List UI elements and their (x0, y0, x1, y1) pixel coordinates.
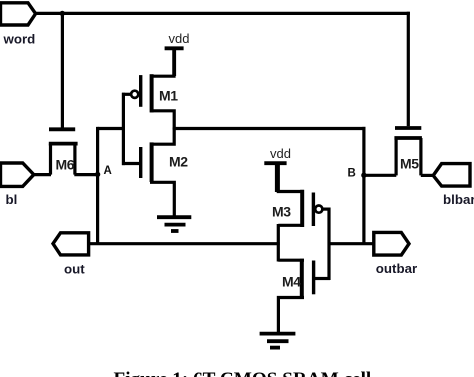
transistor M4 (NMOS) (278, 259, 313, 334)
ground below M4 (260, 334, 296, 348)
wire M3/M4 drain vertical (277, 224, 280, 262)
wire right gate bus (327, 208, 330, 281)
wire word line (top horizontal) (35, 12, 410, 15)
ground below M2 (157, 217, 191, 231)
wire M5 gate stem (top right vertical) (407, 12, 410, 127)
transistor M2 (NMOS) (141, 128, 175, 219)
port blbar (433, 164, 470, 187)
wire M3 gate lead (323, 208, 330, 211)
port outbar (374, 232, 409, 255)
svg-text:M3: M3 (272, 204, 291, 220)
svg-text:M1: M1 (159, 88, 178, 104)
wire left gate bus (122, 93, 125, 165)
svg-text:B: B (348, 168, 356, 180)
wire M6 gate stem (61, 13, 64, 127)
svg-text:Figure 1: 6T CMOS SRAM cell: Figure 1: 6T CMOS SRAM cell (114, 369, 372, 377)
svg-text:vdd: vdd (270, 146, 291, 161)
wire left drain bus (M1/M2 drains to node B) (175, 127, 366, 130)
node B (361, 173, 366, 178)
svg-text:M5: M5 (400, 156, 419, 172)
svg-text:word: word (3, 31, 36, 46)
wire out line (89, 242, 280, 245)
wire node B vertical (362, 127, 365, 244)
wire node A to left gate bus (98, 127, 124, 130)
svg-text:outbar: outbar (376, 261, 417, 276)
wire M6 to node A (74, 173, 97, 176)
port out (53, 233, 89, 255)
node A (95, 172, 100, 177)
power vdd left (165, 48, 184, 76)
svg-text:bl: bl (6, 192, 18, 207)
svg-text:M6: M6 (56, 157, 75, 173)
svg-text:out: out (64, 262, 85, 277)
wire M5 to blbar (421, 174, 434, 177)
wire bl to M6 (34, 173, 52, 176)
wire outbar line (329, 242, 375, 245)
svg-text:vdd: vdd (169, 31, 190, 46)
junction word/M6 stem (60, 11, 65, 16)
transistor M5 (394, 128, 422, 175)
wire node B to M5 (364, 174, 396, 177)
transistor M3 (PMOS) (278, 163, 322, 228)
svg-text:A: A (104, 165, 112, 177)
svg-text:M2: M2 (169, 154, 188, 170)
transistor M1 (PMOS) (131, 48, 174, 130)
power vdd right (264, 163, 286, 192)
svg-text:blbar: blbar (443, 192, 474, 207)
wire M1 gate lead (122, 93, 131, 96)
svg-text:M4: M4 (282, 273, 301, 289)
port word (1, 3, 36, 25)
wire M4 gate lead (315, 277, 331, 280)
wire M2 gate lead (122, 162, 140, 165)
port bl (1, 163, 34, 186)
wire node A vertical (96, 127, 99, 244)
transistor M6 (49, 129, 78, 174)
